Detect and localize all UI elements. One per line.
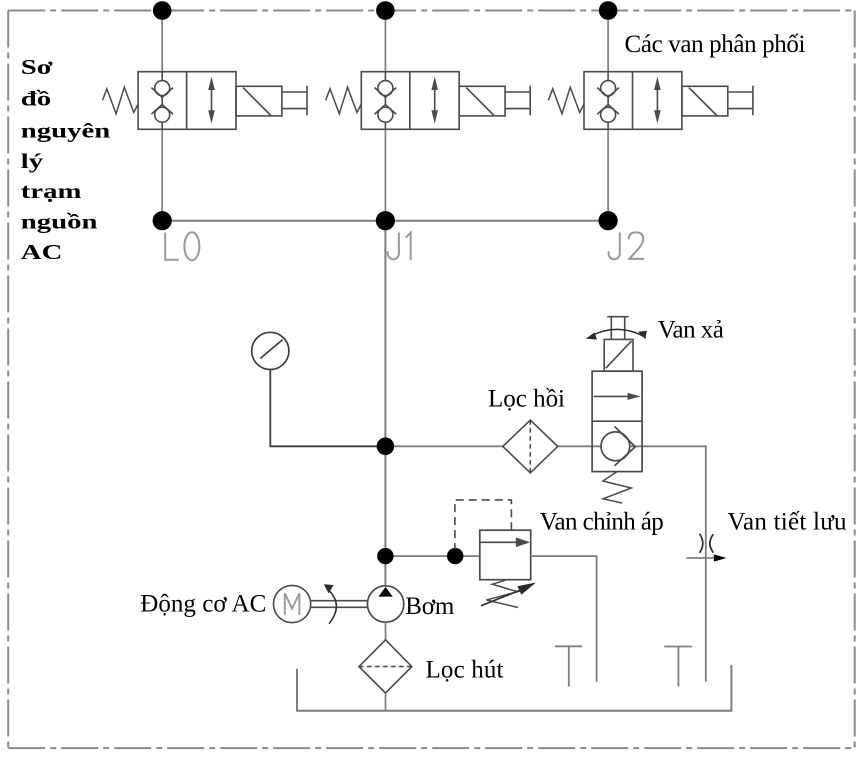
wire: bottom stub from V3 to bus [607, 129, 609, 220]
Van xa check valve (circle on seat) [601, 427, 635, 466]
wire: main pressure line J1 to pump [384, 221, 386, 587]
node L0 [153, 211, 172, 230]
node: frame tap 3 [599, 1, 618, 20]
V2 solenoid [459, 86, 505, 116]
svg-text:đồ: đồ [21, 88, 51, 111]
tank port T2 [664, 647, 692, 687]
wire: Van chinh ap drain to tank [531, 556, 597, 682]
wire: pump suction [385, 622, 387, 640]
node: frame tap 1 [153, 1, 172, 20]
V3 return spring [548, 87, 584, 114]
V1 solenoid pins [282, 86, 307, 116]
V1 check-valve poppets (two circles with seats) [151, 72, 173, 130]
throttle valve (Van tiet luu) [700, 534, 714, 553]
Van xa spring [603, 472, 631, 503]
node J2 [599, 211, 618, 230]
Van chinh ap internal arrow [480, 538, 530, 548]
V3 check-valve poppets (two circles with seats) [597, 72, 619, 130]
V1 flow-path double arrow [208, 77, 215, 124]
node: pilot junction [447, 548, 463, 564]
svg-text:Động cơ AC: Động cơ AC [140, 591, 266, 618]
V3 solenoid pins [728, 86, 753, 116]
wire: filter to tank [385, 693, 387, 711]
svg-text:Sơ: Sơ [21, 56, 53, 79]
pump P1 (Bom) [367, 586, 403, 622]
svg-text:Lọc hút: Lọc hút [426, 657, 504, 684]
return filter (Loc hoi) [503, 420, 558, 473]
V2 solenoid pins [505, 86, 530, 116]
svg-text:nguồn: nguồn [21, 211, 98, 234]
node: return branch on main line [377, 438, 395, 456]
suction filter (Loc hut) [359, 640, 412, 693]
svg-text:Các van phân phối: Các van phân phối [625, 31, 806, 58]
Van xa flow arrow [594, 393, 641, 400]
wire: gauge to main line [270, 370, 385, 447]
V1 solenoid [236, 86, 282, 116]
Van xa manual knob [607, 317, 628, 340]
tank outline [297, 665, 731, 711]
wire: top stub into V3 [607, 11, 609, 72]
wire: bottom stub from V1 to bus [161, 129, 163, 220]
Van xa solenoid box [604, 339, 633, 371]
pressure gauge PG [252, 332, 289, 369]
Van chinh ap spring [487, 580, 519, 607]
wire: bottom stub from V2 to bus [384, 129, 386, 220]
motor M1 (Dong co AC) [274, 585, 311, 622]
tank port T1 [555, 646, 582, 686]
net label J2 [609, 232, 644, 259]
node: frame tap 2 [376, 1, 395, 20]
wire: top stub into V2 [384, 11, 386, 72]
node J1 [376, 211, 395, 230]
valve V1 body (2-position) [138, 72, 236, 130]
svg-text:Van tiết lưu: Van tiết lưu [728, 508, 848, 535]
Van chinh ap pilot line (dashed) [455, 500, 512, 549]
Van chinh ap adjust arrow [481, 583, 536, 606]
V3 flow-path double arrow [654, 77, 661, 124]
net label J1 [388, 233, 411, 261]
V1 return spring [103, 87, 139, 114]
svg-text:nguyên: nguyên [21, 120, 110, 143]
valve V3 body (2-position) [584, 72, 682, 130]
wire: return line to tank corner [385, 446, 705, 681]
relief valve (Van xa) body [592, 371, 642, 471]
shaft rotation arrow [324, 584, 337, 624]
motor shaft coupling [311, 601, 368, 608]
svg-text:lý: lý [21, 150, 44, 173]
node: pump outlet junction [377, 548, 393, 564]
svg-text:trạm: trạm [21, 181, 82, 204]
motor letter M [285, 593, 300, 615]
svg-text:Van chỉnh áp: Van chỉnh áp [540, 508, 664, 535]
valve V2 body (2-position) [361, 72, 459, 130]
wire: branch to pressure-setting valve [385, 555, 479, 557]
svg-text:Van xả: Van xả [658, 317, 724, 344]
V2 check-valve poppets (two circles with seats) [375, 72, 397, 130]
throttle adjust arrow [687, 554, 727, 561]
wire: supply bus L0-J1-J2 [162, 220, 608, 222]
svg-text:Bơm: Bơm [405, 593, 455, 620]
net label L0 [165, 232, 199, 260]
V3 solenoid [682, 86, 728, 116]
svg-text:AC: AC [21, 241, 63, 264]
V2 flow-path double arrow [431, 77, 438, 124]
svg-text:Lọc hồi: Lọc hồi [488, 386, 565, 413]
pressure valve (Van chinh ap) body [480, 530, 531, 580]
Van xa rotation arrows [586, 329, 647, 339]
V2 return spring [326, 87, 362, 114]
wire: top stub into V1 [161, 11, 163, 72]
title: So do nguyen ly tram nguon AC [21, 56, 110, 264]
